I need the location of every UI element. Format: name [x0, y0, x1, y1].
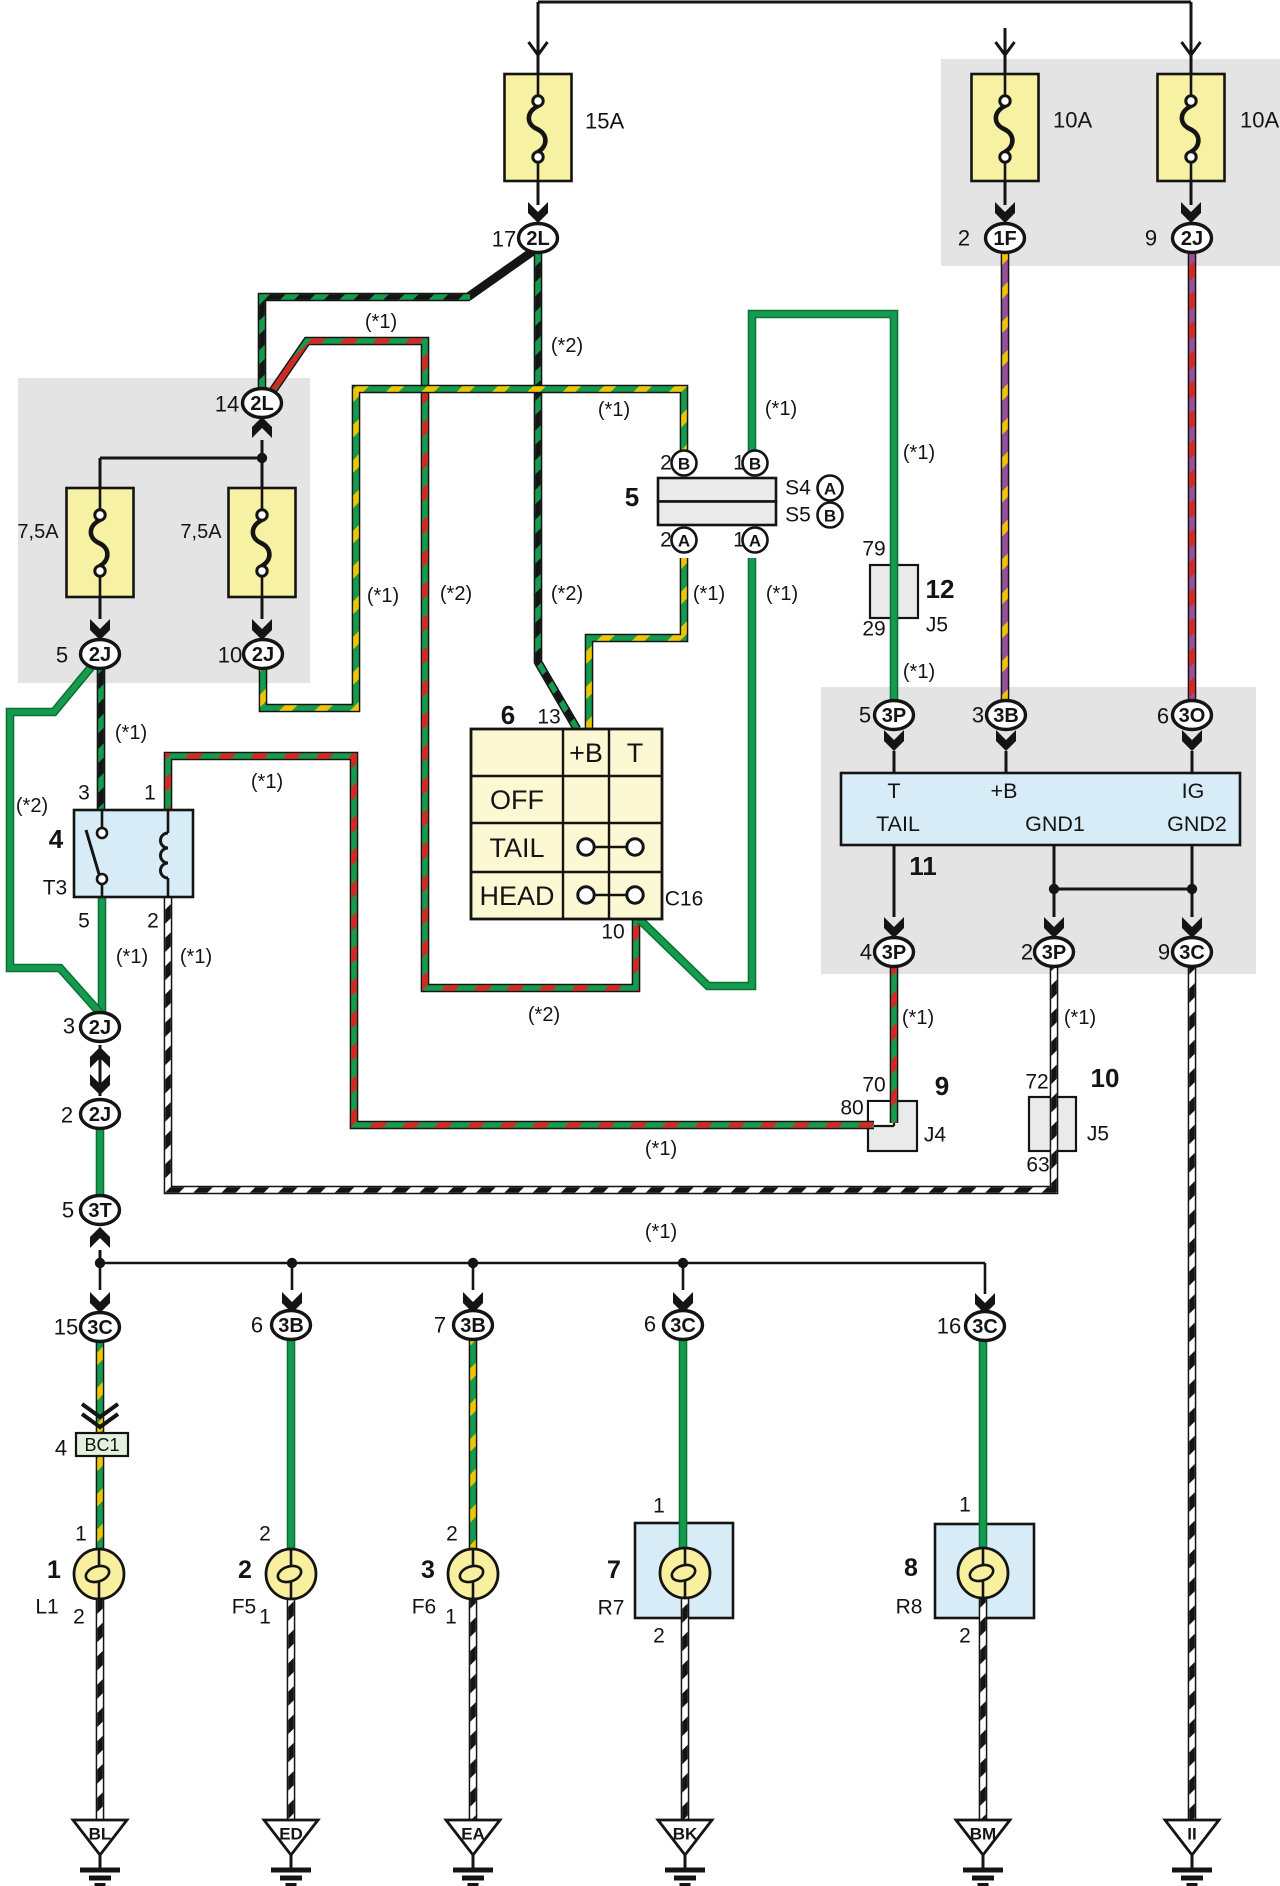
svg-text:(*1): (*1)	[251, 771, 283, 793]
svg-text:+B: +B	[569, 738, 603, 768]
svg-text:2: 2	[73, 1606, 85, 1629]
svg-text:3P: 3P	[882, 705, 906, 727]
svg-text:TAIL: TAIL	[489, 833, 544, 863]
svg-text:GND2: GND2	[1167, 812, 1227, 836]
svg-text:2: 2	[1021, 940, 1033, 965]
svg-text:2: 2	[660, 529, 672, 552]
svg-text:(*1): (*1)	[598, 399, 630, 421]
svg-text:2: 2	[238, 1556, 252, 1584]
svg-text:J5: J5	[1087, 1123, 1109, 1146]
svg-text:3C: 3C	[972, 1316, 998, 1338]
svg-text:(*1): (*1)	[1064, 1007, 1096, 1029]
svg-text:13: 13	[537, 706, 560, 729]
svg-text:A: A	[749, 532, 761, 551]
svg-text:5: 5	[62, 1198, 74, 1223]
svg-text:5: 5	[78, 910, 90, 933]
svg-text:1: 1	[959, 1494, 971, 1517]
svg-text:(*1): (*1)	[693, 583, 725, 605]
svg-text:6: 6	[1157, 704, 1169, 729]
svg-text:2L: 2L	[250, 393, 273, 415]
svg-text:7,5A: 7,5A	[180, 521, 222, 543]
svg-text:BL: BL	[89, 1825, 112, 1844]
svg-text:2: 2	[653, 1625, 665, 1648]
svg-text:63: 63	[1026, 1154, 1049, 1177]
svg-text:OFF: OFF	[490, 785, 544, 815]
svg-text:F6: F6	[412, 1596, 437, 1619]
svg-text:11: 11	[909, 851, 937, 881]
svg-text:ED: ED	[279, 1825, 303, 1844]
svg-text:1: 1	[733, 529, 745, 552]
svg-text:(*1): (*1)	[902, 1007, 934, 1029]
svg-text:(*1): (*1)	[365, 311, 397, 333]
svg-text:(*1): (*1)	[367, 585, 399, 607]
svg-text:1: 1	[653, 1495, 665, 1518]
svg-text:2: 2	[660, 452, 672, 475]
svg-text:1F: 1F	[993, 228, 1016, 250]
svg-text:1: 1	[75, 1523, 87, 1546]
svg-text:EA: EA	[461, 1825, 485, 1844]
svg-text:2: 2	[61, 1103, 73, 1128]
svg-text:15A: 15A	[585, 109, 624, 134]
svg-text:14: 14	[215, 392, 239, 417]
svg-text:2J: 2J	[252, 644, 274, 666]
svg-text:3B: 3B	[460, 1315, 486, 1337]
svg-text:2J: 2J	[89, 1104, 111, 1126]
svg-text:3O: 3O	[1179, 705, 1206, 727]
svg-text:S5: S5	[785, 504, 811, 527]
svg-text:7: 7	[607, 1556, 621, 1584]
svg-text:7: 7	[434, 1313, 446, 1338]
svg-text:1: 1	[733, 452, 745, 475]
svg-text:(*2): (*2)	[440, 583, 472, 605]
svg-text:L1: L1	[35, 1596, 58, 1619]
svg-text:6: 6	[251, 1313, 263, 1338]
svg-text:T: T	[887, 779, 900, 803]
svg-text:J4: J4	[924, 1124, 947, 1147]
svg-text:(*1): (*1)	[903, 442, 935, 464]
svg-text:TAIL: TAIL	[876, 812, 920, 836]
svg-text:3: 3	[78, 782, 90, 805]
svg-text:3B: 3B	[993, 705, 1019, 727]
svg-text:2: 2	[147, 910, 159, 933]
svg-text:12: 12	[926, 574, 955, 604]
svg-text:4: 4	[55, 1436, 67, 1461]
svg-text:2: 2	[446, 1523, 458, 1546]
svg-text:S4: S4	[785, 477, 811, 500]
svg-text:10A: 10A	[1240, 108, 1279, 133]
svg-text:II: II	[1187, 1825, 1196, 1844]
svg-text:2: 2	[958, 226, 970, 251]
svg-text:(*2): (*2)	[551, 335, 583, 357]
svg-text:(*1): (*1)	[180, 946, 212, 968]
svg-text:F5: F5	[232, 1596, 257, 1619]
svg-text:9: 9	[1158, 940, 1170, 965]
svg-text:BK: BK	[673, 1825, 698, 1844]
svg-text:3: 3	[972, 703, 984, 728]
svg-text:9: 9	[1145, 226, 1157, 251]
svg-text:5: 5	[625, 482, 639, 512]
svg-text:3C: 3C	[87, 1317, 113, 1339]
svg-text:10: 10	[1091, 1063, 1120, 1093]
svg-text:2J: 2J	[89, 1017, 111, 1039]
svg-text:4: 4	[49, 824, 64, 854]
svg-text:70: 70	[862, 1074, 885, 1097]
svg-text:1: 1	[144, 782, 156, 805]
svg-text:29: 29	[862, 618, 885, 641]
svg-text:(*1): (*1)	[903, 661, 935, 683]
svg-text:IG: IG	[1182, 779, 1205, 803]
svg-text:3B: 3B	[278, 1315, 304, 1337]
svg-text:4: 4	[860, 940, 872, 965]
svg-text:(*1): (*1)	[115, 722, 147, 744]
svg-text:T3: T3	[43, 877, 68, 900]
svg-text:5: 5	[859, 703, 871, 728]
svg-text:7,5A: 7,5A	[17, 521, 59, 543]
svg-text:3: 3	[421, 1556, 435, 1584]
svg-text:1: 1	[47, 1556, 61, 1584]
svg-text:(*2): (*2)	[528, 1004, 560, 1026]
svg-text:(*1): (*1)	[766, 583, 798, 605]
svg-text:BC1: BC1	[84, 1435, 119, 1455]
svg-text:80: 80	[840, 1097, 863, 1120]
svg-text:17: 17	[492, 227, 516, 252]
svg-text:B: B	[749, 455, 761, 474]
svg-text:1: 1	[445, 1606, 457, 1629]
svg-text:3: 3	[63, 1014, 75, 1039]
svg-text:9: 9	[935, 1071, 949, 1101]
svg-text:R7: R7	[598, 1597, 625, 1620]
svg-text:5: 5	[56, 643, 68, 668]
svg-text:3C: 3C	[1179, 942, 1205, 964]
svg-text:72: 72	[1025, 1071, 1048, 1094]
svg-text:2: 2	[259, 1523, 271, 1546]
svg-text:2J: 2J	[1181, 228, 1203, 250]
svg-text:10: 10	[218, 643, 242, 668]
svg-text:15: 15	[54, 1315, 78, 1340]
svg-text:C16: C16	[665, 888, 704, 911]
svg-text:3T: 3T	[88, 1200, 111, 1222]
svg-text:3C: 3C	[670, 1315, 696, 1337]
svg-text:A: A	[678, 532, 690, 551]
svg-text:HEAD: HEAD	[479, 881, 554, 911]
svg-text:+B: +B	[991, 779, 1018, 803]
svg-text:1: 1	[259, 1606, 271, 1629]
svg-text:8: 8	[904, 1554, 918, 1582]
svg-text:B: B	[678, 455, 690, 474]
svg-text:16: 16	[937, 1314, 961, 1339]
svg-text:T: T	[627, 738, 644, 768]
svg-text:2L: 2L	[526, 228, 549, 250]
svg-text:BM: BM	[970, 1825, 996, 1844]
svg-text:GND1: GND1	[1025, 812, 1085, 836]
svg-text:B: B	[824, 507, 836, 526]
svg-text:R8: R8	[896, 1596, 923, 1619]
svg-text:(*2): (*2)	[16, 795, 48, 817]
svg-text:J5: J5	[926, 614, 948, 637]
svg-text:10A: 10A	[1053, 108, 1092, 133]
svg-text:79: 79	[862, 538, 885, 561]
svg-text:10: 10	[601, 921, 624, 944]
svg-text:A: A	[824, 480, 836, 499]
svg-text:2J: 2J	[89, 644, 111, 666]
svg-text:(*2): (*2)	[551, 583, 583, 605]
svg-text:3P: 3P	[1042, 942, 1066, 964]
svg-text:(*1): (*1)	[645, 1138, 677, 1160]
svg-text:(*1): (*1)	[765, 398, 797, 420]
svg-text:6: 6	[644, 1312, 656, 1337]
svg-text:6: 6	[501, 700, 515, 730]
svg-text:3P: 3P	[882, 942, 906, 964]
svg-text:(*1): (*1)	[116, 946, 148, 968]
svg-text:(*1): (*1)	[645, 1221, 677, 1243]
svg-text:2: 2	[959, 1625, 971, 1648]
